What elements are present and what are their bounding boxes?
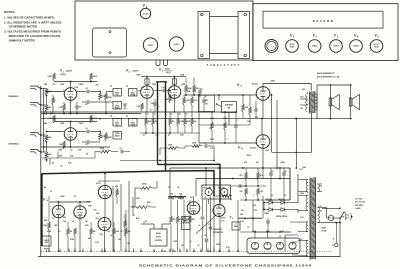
capacitor C23 <box>254 108 258 110</box>
fuse F1 <box>328 215 333 220</box>
svg-text:6FQ7: 6FQ7 <box>166 72 172 74</box>
svg-text:STANDBY: STANDBY <box>225 104 234 107</box>
capacitor C41 screen <box>282 172 286 174</box>
wire screens riser b <box>276 100 278 168</box>
wire fuse top <box>322 207 327 209</box>
long bus under V2 V3 <box>41 111 210 113</box>
resistor R52 <box>249 107 252 115</box>
svg-text:.01: .01 <box>58 231 60 233</box>
reverb coil L1 <box>140 187 153 190</box>
svg-text:.02: .02 <box>204 96 206 98</box>
svg-text:.01: .01 <box>208 224 210 226</box>
filter capacitor C101 <box>251 242 258 249</box>
shielded cable top cap <box>156 81 167 83</box>
power transformer primary <box>318 208 320 223</box>
coupling capacitor C3 .02 <box>82 101 86 103</box>
treble pot ch2 <box>129 119 138 127</box>
svg-text:.05: .05 <box>153 114 155 116</box>
svg-text:BLK-GRN: BLK-GRN <box>204 188 212 190</box>
resistor R4 100K plate <box>53 73 56 81</box>
wire line return <box>322 222 340 224</box>
svg-text:6L6GC: 6L6GC <box>250 148 257 150</box>
filter capacitor C103 <box>276 242 283 249</box>
shielded cable wire B <box>165 82 167 171</box>
wire V5b cathode <box>104 230 106 251</box>
resistor R13 1.5K <box>63 141 66 149</box>
svg-text:.02: .02 <box>132 215 134 217</box>
svg-text:220K: 220K <box>93 76 98 78</box>
cable grommet marks <box>156 60 168 66</box>
svg-text:.005: .005 <box>123 108 126 110</box>
svg-text:.25: .25 <box>168 187 170 189</box>
svg-text:J5: J5 <box>333 239 335 241</box>
svg-text:OTHERWISE NOTED.: OTHERWISE NOTED. <box>9 25 38 29</box>
power switch S1 <box>340 213 344 219</box>
svg-text:47Ω: 47Ω <box>266 149 270 152</box>
wire V6 cathode <box>219 215 221 251</box>
reverb coil L2 <box>136 206 151 209</box>
resistor R70 row <box>100 150 112 153</box>
long vertical wire c <box>243 167 245 169</box>
power transformer heater winding 2 <box>306 240 308 256</box>
power transformer aux winding <box>318 184 320 192</box>
resistor R37 47K <box>125 228 128 236</box>
wire OT center tap <box>311 113 313 153</box>
svg-text:.02: .02 <box>85 88 87 90</box>
svg-text:6FQ7: 6FQ7 <box>290 46 295 48</box>
svg-text:100K: 100K <box>60 84 65 86</box>
volume pot ch2 <box>113 119 122 127</box>
wire V2 plate <box>146 77 148 86</box>
svg-text:270K: 270K <box>223 118 228 120</box>
svg-text:.02: .02 <box>198 225 200 227</box>
svg-text:100K: 100K <box>48 118 53 120</box>
wire speaker left leg <box>316 85 318 119</box>
wire ground drop <box>213 249 215 252</box>
wire ground drop <box>193 249 195 252</box>
triode V1a <box>64 88 77 101</box>
speaker wiring bottom <box>317 118 351 120</box>
wire jacks drop <box>208 199 210 204</box>
pot wiper arrow <box>196 215 216 233</box>
svg-text:.02: .02 <box>162 87 164 89</box>
reverb switch box <box>199 95 215 111</box>
wire V3 plate <box>174 77 176 86</box>
wire V7 cathode <box>262 100 264 118</box>
wire rectifier bottom <box>264 209 269 211</box>
coupling capacitor C5 .02 <box>82 141 86 143</box>
svg-text:VOL.: VOL. <box>115 95 120 97</box>
front panel tube V4 circle <box>350 40 363 53</box>
svg-text:.02: .02 <box>52 218 54 220</box>
wire ground drop <box>113 249 115 252</box>
svg-text:100K: 100K <box>180 75 185 77</box>
capacitor C1 25MFD <box>75 105 79 107</box>
bass pot ch2 <box>113 132 122 140</box>
svg-text:25: 25 <box>79 107 81 109</box>
mid bus wire <box>41 113 141 115</box>
svg-text:CHANNEL 1: CHANNEL 1 <box>8 95 20 98</box>
triode V3 <box>168 86 181 99</box>
svg-text:1 AMP.: 1 AMP. <box>321 227 327 230</box>
svg-text:.003: .003 <box>95 218 98 220</box>
power transformer core <box>310 178 316 260</box>
output transformer primary <box>306 94 308 112</box>
tremolo resistor R41 470K <box>176 216 179 224</box>
svg-text:100: 100 <box>240 191 243 193</box>
svg-text:4.7: 4.7 <box>150 109 152 112</box>
wire feedback drop <box>295 119 297 168</box>
wire V1b plate <box>70 122 72 128</box>
wire final bus <box>238 217 262 219</box>
svg-text:STRENGTH: STRENGTH <box>213 232 224 234</box>
input bus wire 2 <box>43 89 45 153</box>
wire V4a cathode <box>58 218 60 251</box>
triode V5c phase <box>187 202 200 215</box>
wire V2 top bus <box>141 76 186 78</box>
svg-text:.02: .02 <box>170 114 172 116</box>
svg-text:1 MEG: 1 MEG <box>78 84 84 86</box>
bottom border wire <box>38 256 341 258</box>
wire V2-V3 coupling <box>154 90 162 92</box>
wire ground drop <box>59 249 61 252</box>
svg-text:1 MEG: 1 MEG <box>60 74 66 76</box>
filter capacitor can <box>247 238 300 254</box>
filter capacitor C102 <box>264 242 271 249</box>
resistor R23 47K <box>169 118 172 126</box>
wire jack J1 to bus <box>41 88 44 90</box>
B+ bus wire <box>170 167 290 169</box>
output transformer secondary <box>316 94 318 110</box>
svg-text:+: + <box>244 205 245 207</box>
wire V8 cathode <box>262 148 264 168</box>
wire OT secondary leads <box>300 98 308 100</box>
wire ground drop <box>207 249 209 252</box>
svg-text:.05: .05 <box>178 114 180 116</box>
tube V6 oscillator <box>213 205 225 217</box>
svg-text:.25: .25 <box>204 197 206 199</box>
wire tone bus ch1 <box>100 101 113 103</box>
vertical wire x263b <box>262 168 264 179</box>
bass pot ch1 <box>113 102 122 110</box>
wire ground drop <box>179 249 181 252</box>
wire ground drop <box>140 249 142 252</box>
wire ground drop <box>82 249 84 252</box>
resistor R5 220K <box>90 73 93 81</box>
svg-text:6L6GC: 6L6GC <box>174 44 180 46</box>
wire left риser <box>41 158 43 174</box>
svg-text:.02: .02 <box>204 143 206 145</box>
svg-text:5 4 8: 5 4 8 <box>280 264 284 267</box>
svg-text:220K: 220K <box>100 148 105 150</box>
svg-text:100K: 100K <box>168 145 173 147</box>
svg-text:FOOT: FOOT <box>156 237 162 239</box>
capacitor C24 <box>238 184 240 188</box>
pentode V8 <box>256 135 270 149</box>
wire jack J2 to bus <box>41 104 44 106</box>
chassis top-view outline <box>75 1 253 60</box>
svg-text:+465V: +465V <box>280 161 286 164</box>
wire left stub row <box>42 157 95 159</box>
wire ground drop <box>237 249 239 252</box>
speaker wiring top <box>317 84 351 86</box>
wire heater run <box>290 221 298 223</box>
svg-text:.01: .01 <box>189 241 191 243</box>
svg-text:4.7: 4.7 <box>143 134 145 137</box>
tremolo resistor R42 220K <box>183 216 186 224</box>
capacitor C21 <box>202 99 206 101</box>
front panel outline <box>253 4 398 61</box>
wire jack J3 to bus <box>41 134 44 136</box>
pentode V7 <box>256 87 270 101</box>
chassis ground dashed line <box>41 250 333 252</box>
svg-text:220K: 220K <box>58 150 63 152</box>
svg-text:220K: 220K <box>108 137 113 139</box>
wire trem riser <box>169 168 171 196</box>
thin wire y160 <box>120 160 214 162</box>
svg-text:6L6GC: 6L6GC <box>148 45 154 47</box>
wire V2 grid <box>139 90 141 92</box>
screen resistor R28 <box>245 172 248 180</box>
svg-text:680: 680 <box>88 238 91 240</box>
svg-text:SR204 PROM: SR204 PROM <box>276 215 288 218</box>
svg-text:220K: 220K <box>93 118 98 120</box>
wire V7 plate to OT <box>262 84 264 87</box>
svg-text:20MFD: 20MFD <box>277 249 283 251</box>
wire ground drop <box>186 249 188 252</box>
svg-text:SPEED: SPEED <box>183 223 190 225</box>
svg-text:12AX7: 12AX7 <box>333 44 339 47</box>
wire ground drop <box>219 249 221 252</box>
svg-text:.02: .02 <box>197 245 199 247</box>
svg-text:1 MEG: 1 MEG <box>86 202 92 204</box>
svg-text:350 WATT: 350 WATT <box>355 204 365 207</box>
bold cable to tremolo grid <box>158 164 221 203</box>
wire R1 junction <box>46 96 48 106</box>
svg-text:CHANNEL 2: CHANNEL 2 <box>8 143 20 146</box>
svg-text:6FQ7: 6FQ7 <box>374 46 379 48</box>
wire jack J4 to bus <box>41 151 44 153</box>
feedback line <box>41 118 317 120</box>
svg-text:.005: .005 <box>95 85 98 87</box>
bus under cluster <box>140 132 200 134</box>
svg-text:J5: J5 <box>126 116 128 118</box>
resistor R17 2.2K <box>141 103 144 111</box>
treble pot ch1 <box>129 89 138 97</box>
resistor R25 470K <box>184 118 187 126</box>
extra lower labels <box>44 186 257 245</box>
wire V5a cathode <box>104 199 106 218</box>
svg-text:100K: 100K <box>60 123 65 125</box>
svg-text:C16: C16 <box>210 148 213 150</box>
tremolo res row a <box>168 196 176 199</box>
svg-text:GRN-YEL: GRN-YEL <box>218 188 225 190</box>
svg-text:.05: .05 <box>110 235 112 237</box>
wire ch2 grid <box>46 142 48 152</box>
front panel tube V3 circle <box>286 40 299 53</box>
resistor R33 1MEG <box>67 228 70 236</box>
svg-text:100: 100 <box>260 191 263 193</box>
capacitor column x210 <box>210 197 212 252</box>
svg-text:470K: 470K <box>216 243 221 246</box>
svg-text:100K: 100K <box>58 156 63 158</box>
resistor R19 100K <box>183 97 186 105</box>
svg-text:TREB: TREB <box>130 125 136 127</box>
svg-text:270K: 270K <box>210 139 215 141</box>
svg-text:270K: 270K <box>210 118 215 120</box>
svg-text:SR201: SR201 <box>266 199 271 201</box>
svg-text:.05: .05 <box>271 171 273 173</box>
svg-text:DUAL: DUAL <box>156 232 162 235</box>
svg-text:.02: .02 <box>60 166 62 168</box>
resistor R61 <box>124 220 127 228</box>
vertical wire x253 <box>252 200 254 232</box>
resistor R53 tremolo <box>222 195 232 198</box>
rev depth pot <box>42 236 51 246</box>
wire V6 plate <box>219 196 221 204</box>
interlock plug <box>346 213 350 220</box>
capacitor C31 row <box>204 144 206 148</box>
front panel tube V1 circle <box>330 40 343 53</box>
wire screens riser a <box>271 94 273 153</box>
resistor R8 220K <box>105 93 108 101</box>
wire ground drop <box>125 249 127 252</box>
svg-text:.02: .02 <box>119 148 121 150</box>
resistor R9 68K <box>45 135 48 142</box>
wire grid network <box>205 168 207 186</box>
svg-text:OHM/VOLT METER.: OHM/VOLT METER. <box>9 39 36 43</box>
left ground bus wire <box>40 86 42 257</box>
svg-text:.02: .02 <box>146 114 148 116</box>
svg-text:100K: 100K <box>136 75 141 77</box>
capacitor C22 .1 <box>234 124 238 126</box>
bold reverb depth drop <box>41 174 43 247</box>
shielded cable wire A <box>157 82 159 165</box>
svg-text:117 VAC: 117 VAC <box>355 198 363 201</box>
wire screen bus2 <box>240 185 266 187</box>
wire ground drop <box>172 249 174 252</box>
svg-text:EACH SPEAKER VC = 8Ω: EACH SPEAKER VC = 8Ω <box>317 76 340 79</box>
wire V3 net <box>184 94 200 96</box>
rectifier diode SR201 <box>269 201 273 205</box>
wire ground drop <box>101 249 103 252</box>
svg-text:450: 450 <box>302 88 305 91</box>
svg-text:.1: .1 <box>253 195 254 197</box>
svg-text:.02: .02 <box>143 222 145 224</box>
svg-text:.02: .02 <box>52 84 54 86</box>
resistor R15 220K <box>105 133 108 141</box>
svg-text:470: 470 <box>256 161 259 164</box>
resistor R31 100 <box>257 188 260 196</box>
resistor R26 56K <box>191 118 194 126</box>
svg-text:1. VALUES OF CAPACITORS IN MFD: 1. VALUES OF CAPACITORS IN MFD. <box>4 15 55 19</box>
input jack J4 <box>30 150 41 154</box>
svg-text:.1: .1 <box>226 139 227 141</box>
svg-text:INDICATED TO CHASSIS WITH 20,0: INDICATED TO CHASSIS WITH 20,000 <box>9 34 61 38</box>
pilot lamp <box>265 40 278 53</box>
resistor R60 <box>116 189 119 197</box>
wire ground drop <box>104 249 106 252</box>
svg-text:DEPTH: DEPTH <box>44 249 50 251</box>
svg-text:100K: 100K <box>186 91 191 93</box>
svg-text:220K: 220K <box>192 143 197 145</box>
wire V1a cathode <box>70 100 72 113</box>
long vertical wire b <box>237 200 239 251</box>
svg-text:+485V: +485V <box>270 80 276 83</box>
long vertical wire a <box>213 196 215 251</box>
tube V7 socket on chassis <box>143 38 157 52</box>
svg-text:25: 25 <box>145 221 147 223</box>
svg-text:.02: .02 <box>230 199 232 201</box>
wire can feeds <box>254 232 256 238</box>
svg-text:220K: 220K <box>108 97 113 99</box>
standby switch box <box>222 102 237 113</box>
wire V2 cathode <box>146 98 148 112</box>
rectifier diode SR203 <box>269 208 273 212</box>
tube V6 socket <box>140 8 150 18</box>
resistor R30 100 <box>245 188 248 196</box>
foot switch box <box>150 229 167 246</box>
wire ground drop <box>48 249 50 252</box>
svg-text:12AX7: 12AX7 <box>353 44 359 47</box>
power transformer HV winding <box>306 180 308 193</box>
svg-text:.02: .02 <box>85 128 87 130</box>
wire ground drop <box>153 249 155 252</box>
resistor R34 470K <box>74 228 77 236</box>
wire trem tube plate <box>193 197 195 202</box>
resistor R16 100K box <box>145 79 149 84</box>
resistor R24 1 MEG <box>177 118 180 126</box>
wire V4a plate <box>58 202 60 205</box>
wire x263 drop <box>262 196 264 219</box>
power transformer HV winding lower <box>306 195 308 210</box>
input jack J3 <box>30 133 41 137</box>
wire ground drop <box>228 249 230 252</box>
bold cable to reverb <box>42 171 214 196</box>
heater wires <box>284 235 286 251</box>
resistor R6 1.5K cathode <box>63 104 66 112</box>
wire V1b cathode <box>70 140 72 147</box>
triode V5b <box>98 218 111 231</box>
svg-text:.01: .01 <box>205 241 207 243</box>
wire row riser <box>159 148 161 155</box>
wire V4b plate <box>79 202 81 206</box>
wire ground drop <box>169 249 171 252</box>
wire V4b cathode <box>79 218 81 251</box>
resistor R54 <box>185 85 188 93</box>
triode V2 <box>141 86 154 99</box>
shield cover on chassis <box>93 28 127 57</box>
wire bias bus <box>199 124 250 126</box>
output transformer core <box>310 92 316 114</box>
coupling capacitor C2 .02 <box>77 91 86 93</box>
wire reverb plate bus <box>50 201 90 203</box>
resistor R20 10K <box>191 97 194 105</box>
svg-text:R E V E R B: R E V E R B <box>313 19 333 23</box>
rectifier diode SR202 <box>281 201 285 205</box>
wire screens gnd <box>266 199 290 201</box>
tube V8 socket on chassis <box>169 37 183 51</box>
svg-text:470: 470 <box>240 174 243 177</box>
wire V7 grid <box>199 94 256 96</box>
wire ground drop <box>133 249 135 252</box>
front panel tube V5 circle <box>370 40 383 53</box>
svg-text:.05: .05 <box>50 191 52 193</box>
svg-text:470: 470 <box>244 161 247 164</box>
wire ground drop <box>90 249 92 252</box>
right return wire <box>340 251 342 257</box>
resistor R32 100K <box>48 222 51 230</box>
